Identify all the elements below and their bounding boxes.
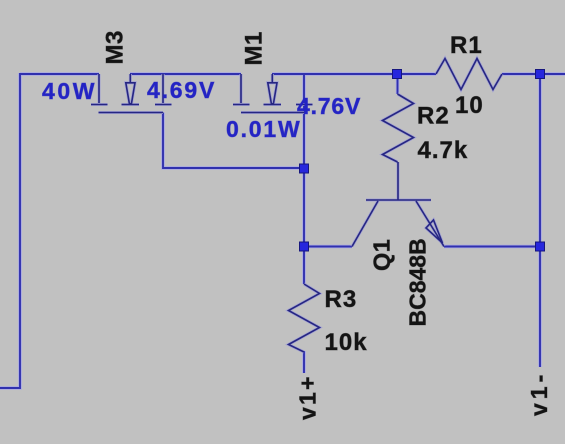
- svg-text:0.01W: 0.01W: [226, 116, 301, 142]
- svg-text:R2: R2: [417, 103, 450, 130]
- svg-text:v1-: v1-: [526, 371, 552, 416]
- svg-text:M3: M3: [102, 30, 129, 64]
- svg-text:BC848B: BC848B: [405, 238, 431, 326]
- svg-text:4.7k: 4.7k: [418, 137, 469, 164]
- svg-text:10k: 10k: [325, 329, 368, 356]
- svg-text:40W: 40W: [42, 78, 97, 104]
- svg-text:R3: R3: [325, 286, 358, 313]
- svg-text:v1+: v1+: [295, 374, 321, 420]
- svg-text:R1: R1: [450, 32, 483, 59]
- svg-text:4.76V: 4.76V: [297, 93, 361, 119]
- svg-text:4.69V: 4.69V: [147, 77, 216, 103]
- svg-text:M1: M1: [241, 31, 268, 65]
- svg-text:10: 10: [455, 92, 484, 119]
- svg-text:Q1: Q1: [369, 239, 395, 271]
